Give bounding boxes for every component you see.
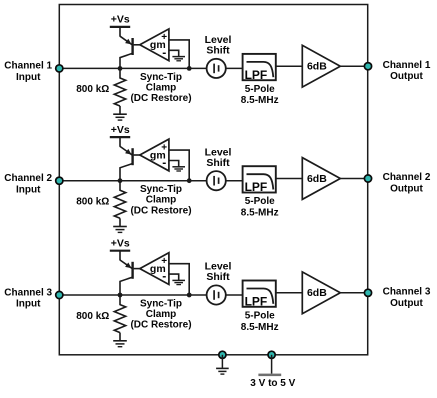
- ground below resistor R2: [113, 226, 127, 228]
- +Vs supply bar channel 1: [110, 26, 130, 28]
- wire gm - input to ground: [169, 50, 179, 56]
- svg-text:Shift: Shift: [206, 45, 230, 57]
- svg-text:Channel 1: Channel 1: [383, 60, 431, 71]
- supply node 3V to 5V: [268, 351, 275, 358]
- wire gm output to Q2 base: [134, 154, 140, 156]
- svg-text:(DC Restore): (DC Restore): [130, 205, 191, 216]
- svg-text:Clamp: Clamp: [146, 309, 177, 320]
- resistor R2 800 kOhm: [119, 181, 121, 191]
- wire level shift to LPF: [226, 67, 243, 69]
- wire level shift to LPF: [226, 294, 243, 296]
- amplifier A2 6dB: [302, 158, 340, 200]
- svg-text:-: -: [162, 45, 166, 59]
- wire amp A1 to output node: [340, 65, 367, 67]
- svg-text:(DC Restore): (DC Restore): [130, 93, 191, 104]
- svg-text:8.5-MHz: 8.5-MHz: [241, 208, 279, 219]
- svg-text:8.5-MHz: 8.5-MHz: [241, 322, 279, 333]
- svg-text:Channel 3: Channel 3: [383, 287, 431, 298]
- transistor Q1 collector: [120, 53, 133, 68]
- ground at gm - input channel 1: [172, 56, 185, 58]
- transistor Q2 emitter (PNP arrow): [120, 146, 132, 154]
- channel 3 input node: [56, 291, 63, 298]
- wire node to supply bar: [271, 355, 273, 374]
- resistor R1 800 kOhm: [119, 68, 121, 78]
- wire gm output to Q1 base: [134, 44, 140, 46]
- transistor Q2 base bar: [131, 148, 133, 165]
- svg-text:Channel 2: Channel 2: [4, 173, 52, 184]
- svg-text:3 V to 5 V: 3 V to 5 V: [250, 378, 295, 389]
- wire gm output to Q3 base: [134, 268, 140, 270]
- node junction at Q2 collector: [118, 178, 123, 183]
- svg-text:+: +: [161, 142, 167, 153]
- op-amp U3 gm transconductance amp: [140, 253, 169, 285]
- wire channel 1 input rail: [59, 67, 206, 69]
- wire channel 2 input rail: [59, 180, 206, 182]
- op-amp U2 gm transconductance amp: [140, 139, 169, 171]
- LPF block channel 3: [243, 281, 276, 307]
- wire LPF to amp A2: [276, 178, 303, 180]
- transistor Q1 emitter (PNP arrow): [120, 36, 132, 44]
- wire gm - input to ground: [169, 161, 179, 167]
- +Vs supply bar channel 2: [110, 136, 130, 138]
- svg-text:Channel 2: Channel 2: [383, 172, 431, 183]
- amplifier A3 6dB: [302, 272, 340, 314]
- wire gm + input to input rail node: [169, 40, 189, 69]
- channel 2 output node: [364, 175, 371, 182]
- svg-text:Sync-Tip: Sync-Tip: [140, 72, 182, 83]
- svg-text:+: +: [161, 256, 167, 267]
- svg-text:Input: Input: [16, 72, 41, 83]
- svg-text:5-Pole: 5-Pole: [245, 196, 275, 207]
- wire level shift to LPF: [226, 180, 243, 182]
- amplifier A1 6dB: [302, 45, 340, 87]
- svg-text:5-Pole: 5-Pole: [245, 84, 275, 95]
- transistor Q3 base bar: [131, 262, 133, 279]
- svg-text:Input: Input: [16, 184, 41, 195]
- wire LPF to amp A1: [276, 65, 303, 67]
- ground below resistor R1: [113, 113, 127, 115]
- wire gm - input to ground: [169, 274, 179, 280]
- svg-text:800 kΩ: 800 kΩ: [76, 311, 109, 322]
- LPF block channel 2: [243, 166, 276, 192]
- ground at gm - input channel 2: [172, 166, 185, 168]
- svg-text:Clamp: Clamp: [146, 195, 177, 206]
- wire gm + input to input rail node: [169, 150, 189, 181]
- node junction at Q1 collector: [118, 66, 123, 71]
- svg-text:5-Pole: 5-Pole: [245, 310, 275, 321]
- svg-text:6dB: 6dB: [307, 173, 327, 185]
- transistor Q2 collector: [120, 164, 133, 181]
- LPF block channel 1: [243, 54, 276, 80]
- node junction at gm + tap: [187, 293, 192, 298]
- wire gm + input to input rail node: [169, 264, 189, 295]
- channel 3 output node: [364, 289, 371, 296]
- wire channel 3 input rail: [59, 294, 206, 296]
- svg-text:+: +: [161, 32, 167, 43]
- ground symbol bottom: [216, 367, 229, 369]
- wire LPF to amp A3: [276, 292, 303, 294]
- +Vs supply bar channel 3: [110, 250, 130, 252]
- svg-text:Output: Output: [390, 184, 423, 195]
- svg-text:6dB: 6dB: [307, 287, 327, 299]
- channel 1 input node: [56, 65, 63, 72]
- wire +Vs to Q1 emitter: [119, 27, 121, 37]
- node junction at Q3 collector: [118, 293, 123, 298]
- node junction at gm + tap: [187, 178, 192, 183]
- svg-text:LPF: LPF: [245, 68, 268, 82]
- wire +Vs to Q3 emitter: [119, 251, 121, 261]
- ground below resistor R3: [113, 340, 127, 342]
- wire +Vs to Q2 emitter: [119, 137, 121, 147]
- svg-text:Shift: Shift: [206, 271, 230, 283]
- node junction at gm + tap: [187, 66, 192, 71]
- svg-text:+Vs: +Vs: [111, 238, 130, 250]
- svg-text:Sync-Tip: Sync-Tip: [140, 298, 182, 309]
- svg-text:LPF: LPF: [245, 180, 268, 194]
- svg-text:Channel 3: Channel 3: [4, 287, 52, 298]
- level shift current source channel 2: [207, 171, 226, 190]
- channel 2 input node: [56, 177, 63, 184]
- wire amp A3 to output node: [340, 292, 367, 294]
- resistor R3 800 kOhm: [119, 295, 121, 305]
- wire node to ground: [221, 355, 223, 368]
- wire amp A2 to output node: [340, 178, 367, 180]
- svg-text:6dB: 6dB: [307, 61, 327, 73]
- transistor Q1 base bar: [131, 38, 133, 55]
- ground at gm - input channel 3: [172, 279, 185, 281]
- svg-text:(DC Restore): (DC Restore): [130, 320, 191, 331]
- svg-text:-: -: [162, 269, 166, 283]
- svg-text:Output: Output: [390, 71, 423, 82]
- supply bar: [258, 374, 281, 377]
- svg-text:8.5-MHz: 8.5-MHz: [241, 95, 279, 106]
- svg-text:Output: Output: [390, 298, 423, 309]
- level shift current source channel 1: [207, 59, 226, 78]
- svg-text:800 kΩ: 800 kΩ: [76, 197, 109, 208]
- svg-text:Clamp: Clamp: [146, 82, 177, 93]
- transistor Q3 collector: [120, 277, 133, 295]
- svg-text:+Vs: +Vs: [111, 14, 130, 26]
- outer box: [59, 5, 367, 355]
- svg-text:Shift: Shift: [206, 157, 230, 169]
- level shift current source channel 3: [207, 285, 226, 304]
- svg-text:800 kΩ: 800 kΩ: [76, 84, 109, 95]
- svg-text:+Vs: +Vs: [111, 124, 130, 136]
- svg-text:Channel 1: Channel 1: [4, 61, 52, 72]
- svg-text:LPF: LPF: [245, 294, 268, 308]
- svg-text:Sync-Tip: Sync-Tip: [140, 184, 182, 195]
- bottom ground node: [219, 351, 226, 358]
- svg-text:Input: Input: [16, 299, 41, 310]
- op-amp U1 gm transconductance amp: [140, 29, 169, 61]
- transistor Q3 emitter (PNP arrow): [120, 260, 132, 268]
- channel 1 output node: [364, 63, 371, 70]
- svg-text:-: -: [162, 156, 166, 170]
